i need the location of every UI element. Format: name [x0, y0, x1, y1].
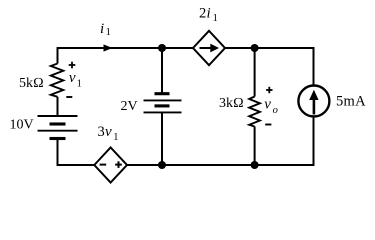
- wire bottom: 3v1 diamond right vertex to bottom-right corner: [127, 164, 314, 166]
- svg-text:i: i: [207, 6, 211, 22]
- node dot bottom right: [251, 161, 259, 169]
- battery 10V plate short bottom: [50, 137, 66, 140]
- label minus of vo: [265, 124, 271, 126]
- minus inside 3v1: [100, 164, 107, 166]
- wire 3kOhm branch vertical top: [254, 48, 256, 97]
- plus inside 3v1: [115, 161, 122, 168]
- battery 2V plate long bottom: [144, 111, 182, 113]
- wire right vertical top: [313, 47, 315, 85]
- battery 10V plate short: [50, 122, 66, 125]
- svg-text:10V: 10V: [10, 118, 34, 133]
- wire left vertical top segment: [57, 47, 59, 63]
- wire left vertical below battery: [57, 139, 59, 166]
- svg-text:i: i: [100, 21, 104, 37]
- current source 5mA circle: [298, 86, 329, 117]
- arrow inside 2i1: [200, 47, 213, 49]
- wire left vertical between resistor and 10V battery: [57, 97, 59, 116]
- node dot bottom middle: [158, 161, 166, 169]
- resistor 5kOhm zigzag: [51, 64, 64, 97]
- node dot top middle: [158, 44, 166, 52]
- wire middle vertical top: [161, 48, 163, 94]
- svg-text:5mA: 5mA: [336, 93, 366, 109]
- wire 3kOhm branch vertical bottom: [254, 127, 256, 166]
- svg-text:v: v: [105, 124, 112, 140]
- svg-text:o: o: [273, 105, 278, 116]
- svg-text:3: 3: [98, 124, 105, 140]
- svg-text:2: 2: [199, 6, 206, 22]
- svg-text:3kΩ: 3kΩ: [219, 96, 244, 111]
- svg-text:2V: 2V: [121, 99, 138, 114]
- svg-text:v: v: [264, 97, 271, 113]
- battery 2V plate short top: [155, 92, 170, 95]
- arrowhead of current i1 on top wire: [104, 44, 113, 51]
- wire bottom: left corner to 3v1 diamond left vertex: [57, 164, 95, 166]
- svg-text:5kΩ: 5kΩ: [19, 76, 44, 91]
- svg-text:1: 1: [106, 27, 111, 38]
- dependent source 3v1 diamond: [94, 148, 127, 183]
- battery 2V plate short: [155, 104, 170, 107]
- label plus of v1: [69, 62, 76, 69]
- dependent source 2i1 diamond: [193, 31, 225, 65]
- resistor 3kOhm zigzag: [249, 97, 260, 127]
- wire top: 2i1 diamond right vertex to top-right corner: [225, 47, 314, 49]
- wire middle vertical bottom: [161, 112, 163, 165]
- battery 10V plate long top: [38, 115, 78, 117]
- arrow inside 5mA source: [313, 96, 316, 115]
- battery 2V plate long: [144, 99, 182, 101]
- wire top: left corner to 2i1 diamond left vertex: [58, 47, 194, 49]
- wire right vertical bottom: [313, 117, 315, 166]
- svg-text:1: 1: [113, 132, 118, 143]
- svg-text:1: 1: [213, 13, 218, 24]
- label minus of v1: [66, 96, 72, 98]
- svg-text:1: 1: [77, 79, 82, 90]
- svg-text:v: v: [69, 70, 76, 86]
- label plus of vo: [266, 87, 272, 93]
- battery 10V plate long: [38, 130, 78, 132]
- node dot top right: [251, 44, 259, 52]
